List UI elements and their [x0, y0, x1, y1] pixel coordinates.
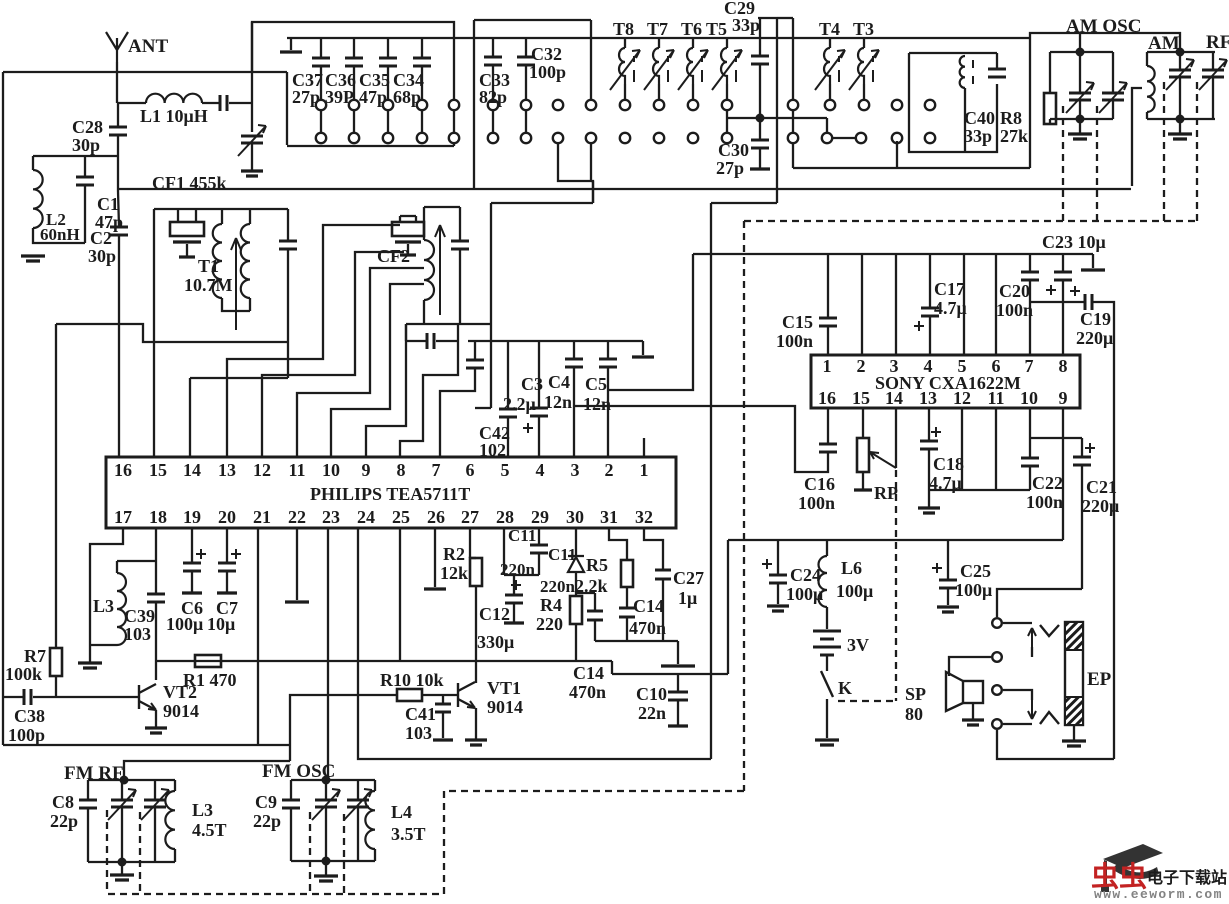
wire C2 down pin16 column: [118, 235, 120, 324]
wire C37 contact link: [320, 111, 322, 132]
junction C29 C30: [756, 114, 765, 123]
svg-text:6: 6: [992, 356, 1001, 376]
svg-text:K: K: [838, 678, 852, 698]
bar C7: [217, 591, 237, 594]
wire mid rail: [612, 673, 728, 675]
svg-text:C41: C41: [405, 704, 436, 724]
wire C36 stub: [353, 38, 355, 58]
wire T3 to contact: [863, 84, 865, 99]
varcap AMOSC 1: [1069, 93, 1091, 100]
bar CF1f tail: [179, 255, 195, 258]
svg-text:17: 17: [114, 507, 132, 527]
svg-text:L3: L3: [192, 800, 213, 820]
wire T4-T3 link: [833, 137, 855, 139]
wire AM gnd stub: [1179, 119, 1181, 133]
wire L6 stub: [826, 540, 828, 556]
wire C41 tail: [442, 712, 444, 738]
wire switch down: [826, 699, 828, 738]
varcap AM 1: [1169, 70, 1191, 77]
wire C35 contact link: [387, 111, 389, 132]
svg-text:14: 14: [183, 460, 201, 480]
wire supply rail H1: [156, 660, 612, 662]
wire pin19 stub: [191, 528, 193, 562]
wire pin21 column: [257, 528, 259, 745]
trimmer T8: [619, 48, 625, 84]
plus C3: [523, 423, 533, 433]
ground bar pin26: [424, 587, 446, 590]
wire ANT down: [116, 62, 118, 103]
capacitor C21: [1073, 457, 1091, 465]
svg-text:23: 23: [322, 507, 340, 527]
wire CF1f tail: [186, 244, 188, 256]
svg-text:20: 20: [218, 507, 236, 527]
inductor detector coil: [424, 240, 434, 300]
varcap AMOSC 2: [1102, 93, 1124, 100]
wire R8 bottom: [1049, 119, 1051, 124]
varcap FMRF 1: [111, 800, 133, 807]
capacitor C15: [819, 318, 837, 326]
wire trimmer to gnd: [251, 143, 253, 170]
wire FMRF gnd stub: [121, 862, 123, 874]
wire L1 to cap: [202, 102, 219, 104]
wire C33 link: [492, 111, 494, 132]
svg-text:VT1: VT1: [487, 678, 521, 698]
wire inner box bottom: [287, 145, 454, 147]
svg-text:C39: C39: [124, 606, 155, 626]
wire x793 riser: [792, 18, 794, 99]
wire C42 stub: [507, 341, 509, 408]
capacitor C4: [565, 359, 583, 367]
wire C18 down: [928, 449, 930, 507]
inductor osc coil: [960, 56, 965, 88]
svg-text:3: 3: [890, 356, 899, 376]
arrow jack upper: [1028, 628, 1036, 647]
ground speaker: [962, 720, 984, 725]
ground AMOSC: [1068, 134, 1092, 139]
wire AMOSC vc1 down: [1079, 100, 1081, 119]
svg-text:24: 24: [357, 507, 375, 527]
wire jack upper down: [1031, 647, 1033, 657]
wire C27 down: [662, 579, 664, 641]
wire supply bus: [728, 539, 1063, 541]
svg-text:C11: C11: [548, 545, 576, 564]
arrow T1 core: [231, 238, 241, 330]
varcap FMRF 2: [144, 800, 166, 807]
svg-text:22: 22: [288, 507, 306, 527]
dashed gang AMOSC 2: [1096, 106, 1098, 221]
wire x593 link: [592, 181, 594, 203]
svg-text:C38: C38: [14, 706, 45, 726]
svg-text:C5: C5: [585, 374, 607, 394]
svg-text:4: 4: [536, 460, 545, 480]
capacitor C19: [1085, 294, 1092, 310]
contact T6 row1: [688, 100, 698, 110]
capacitor coupling: [427, 333, 434, 349]
wire T5 stub: [726, 38, 728, 48]
wire pin3 tee: [574, 405, 577, 407]
wire det right drop: [457, 324, 459, 341]
wire padder node: [727, 117, 827, 119]
transistor VT2 9014: [139, 684, 156, 710]
wire pin31 jog: [609, 528, 627, 560]
resistor R4: [570, 596, 582, 624]
wire main bus CF1: [119, 188, 1131, 190]
svg-text:100n: 100n: [798, 493, 835, 513]
wire pin2 up: [861, 254, 863, 355]
arrow jack lower: [1028, 700, 1036, 719]
wire c13 tail: [594, 620, 596, 641]
wire pin7 cap stub: [474, 341, 476, 360]
junction AMOSC bottom: [1076, 115, 1085, 124]
resistor R7: [50, 648, 62, 676]
wire AMOSC tank top: [1050, 51, 1113, 53]
contact T4 row1: [825, 100, 835, 110]
svg-text:C8: C8: [52, 792, 74, 812]
capacitor C13: [587, 611, 603, 620]
wire x897 stub: [896, 141, 898, 168]
wire CF2 stub L: [399, 216, 401, 222]
contact box right row2: [449, 133, 459, 143]
wire top-left box: [3, 71, 287, 73]
capacitor C18: [920, 441, 938, 449]
wire C33 to contact: [492, 65, 494, 99]
wire C8 stub: [87, 780, 89, 799]
svg-text:13: 13: [919, 388, 937, 408]
wire pin29 stub: [538, 528, 540, 544]
svg-text:100μ: 100μ: [786, 584, 823, 604]
wire L3fm stub top: [174, 780, 176, 791]
capacitor C24: [769, 575, 787, 583]
wire det to x593: [491, 202, 593, 204]
wire pin3 up: [895, 254, 897, 355]
dashed gang FMRF 2: [139, 812, 141, 894]
svg-text:100p: 100p: [8, 725, 45, 745]
box osc coil top: [909, 52, 997, 54]
wire AM coil top stub2: [1146, 52, 1148, 66]
svg-text:330μ: 330μ: [477, 632, 514, 652]
inductor L1: [146, 94, 202, 103]
wire C38 left: [3, 696, 24, 698]
contact under C35 row1: [383, 100, 393, 110]
resistor R2: [470, 558, 482, 586]
wire x793 mid: [792, 111, 794, 132]
wire AMOSC vc2 stub: [1112, 52, 1114, 93]
svg-text:220μ: 220μ: [1082, 496, 1119, 516]
wire C15 column: [827, 254, 829, 317]
wire FMRF top bus: [88, 779, 175, 781]
svg-text:SP: SP: [905, 684, 926, 704]
wire AM coil bottom stub: [1146, 112, 1148, 119]
svg-text:14: 14: [885, 388, 903, 408]
contact g2 row1 a: [553, 100, 563, 110]
svg-text:9014: 9014: [163, 701, 199, 721]
svg-text:www.eeworm.com: www.eeworm.com: [1094, 887, 1223, 899]
wire C28 to node: [117, 135, 119, 191]
wire bottom link bus: [929, 489, 1030, 491]
contact T5 row1: [722, 100, 732, 110]
svg-text:220μ: 220μ: [1076, 328, 1113, 348]
ceramic filter CF1 body: [170, 222, 204, 236]
wire C1 top stub: [84, 156, 86, 176]
wire C9 stub: [290, 780, 292, 799]
svg-text:100μ: 100μ: [166, 614, 203, 634]
svg-text:12n: 12n: [583, 394, 611, 414]
svg-text:EP: EP: [1087, 669, 1112, 690]
wire T1 box right upper: [287, 209, 289, 240]
ground VT1: [465, 740, 487, 745]
ground C25: [937, 607, 959, 612]
capacitor C12: [505, 595, 523, 603]
svg-text:13: 13: [218, 460, 236, 480]
svg-text:10: 10: [1020, 388, 1038, 408]
svg-text:RP: RP: [874, 483, 898, 503]
contact right row2: [892, 133, 902, 143]
wire c13 stub: [594, 593, 596, 610]
wire RP bottom: [862, 472, 864, 489]
capacitor C41: [435, 704, 451, 712]
wire CF1f stub R: [195, 209, 197, 222]
ground stub at bus start: [290, 38, 292, 50]
svg-text:33p: 33p: [732, 15, 760, 35]
wire top box right circles: [453, 110, 455, 132]
wire C3 down pin4: [538, 416, 540, 457]
wire FMOSC gnd stub: [325, 861, 327, 875]
wire C30 stub: [759, 148, 761, 168]
wire pin16 column: [118, 324, 120, 457]
svg-text:29: 29: [531, 507, 549, 527]
wire det bottom: [406, 323, 491, 325]
svg-text:C23 10μ: C23 10μ: [1042, 232, 1106, 252]
op-amp U1 PHILIPS TEA5711T: [106, 457, 676, 528]
plus C17: [914, 321, 924, 331]
wire FMOSC vc2 down: [357, 807, 359, 861]
wire L3if stub: [116, 561, 118, 573]
wire cap to riser: [229, 102, 252, 104]
wire det cap down: [459, 249, 461, 324]
wire VT1 emitter: [475, 708, 477, 739]
arrow detector core: [435, 225, 445, 315]
svg-text:T1: T1: [198, 256, 219, 276]
wire C12 stub: [513, 575, 515, 594]
contact T6 row2: [688, 133, 698, 143]
svg-text:C14: C14: [573, 663, 604, 683]
wire FMRF feed jog: [289, 745, 291, 761]
wire pin3 to C16: [577, 406, 813, 472]
contact T3 row1: [859, 100, 869, 110]
wire pin1 stub: [643, 438, 645, 457]
svg-text:470n: 470n: [629, 618, 666, 638]
contact under C37 row2: [316, 133, 326, 143]
svg-text:5: 5: [958, 356, 967, 376]
svg-text:220n: 220n: [500, 560, 536, 579]
contact jack 3: [992, 685, 1002, 695]
wire pin32 jog: [644, 528, 663, 569]
capacitor C29: [751, 56, 769, 64]
svg-text:32: 32: [635, 507, 653, 527]
svg-text:22p: 22p: [253, 811, 281, 831]
svg-text:R5: R5: [586, 555, 608, 575]
ground switch: [815, 740, 839, 745]
jack contact V: [1040, 625, 1059, 636]
svg-text:7: 7: [432, 460, 441, 480]
wire pin12 staircase: [262, 252, 404, 457]
wire AM vc2 down: [1212, 77, 1214, 119]
wire C21 stub: [1081, 438, 1083, 457]
svg-text:12: 12: [253, 460, 271, 480]
wire pin10 down: [1029, 408, 1031, 457]
svg-text:C20: C20: [999, 281, 1030, 301]
wire batt to switch: [826, 655, 828, 671]
contact under C37 row1: [316, 100, 326, 110]
contact under C34 row1: [417, 100, 427, 110]
svg-text:C32: C32: [531, 44, 562, 64]
svg-text:R4: R4: [540, 595, 562, 615]
svg-text:C28: C28: [72, 117, 103, 137]
inductor L3 IF: [117, 573, 126, 645]
trimmer T6: [687, 48, 693, 84]
svg-text:PHILIPS TEA5711T: PHILIPS TEA5711T: [310, 484, 470, 504]
capacitor C14: [619, 608, 635, 617]
trimmer CF1 tuning: [241, 136, 263, 143]
box osc coil: [909, 53, 997, 152]
wire top stub box: [758, 17, 777, 19]
wire L1 left: [117, 102, 146, 104]
svg-text:9: 9: [1059, 388, 1068, 408]
wire C12 tail: [513, 603, 515, 622]
ground FMOSC: [314, 876, 338, 881]
wire C20 down: [1029, 280, 1031, 355]
svg-text:C22: C22: [1032, 473, 1063, 493]
capacitor C22: [1021, 458, 1039, 466]
wire L3if top: [117, 560, 156, 562]
wire L2 top: [32, 156, 34, 170]
wire speaker gnd stub: [972, 703, 974, 719]
wire pin22 stub: [296, 528, 298, 600]
wire det box left: [423, 207, 425, 240]
wire jack2 link: [949, 657, 991, 676]
wire x793 low: [792, 143, 794, 168]
svg-text:T3: T3: [853, 19, 874, 39]
wire C21 to jack: [997, 589, 1082, 617]
wire VT2 emitter: [155, 710, 157, 727]
svg-text:C24: C24: [790, 565, 821, 585]
ground pin17 branch: [78, 663, 102, 668]
wire R4 cap link: [577, 592, 595, 594]
svg-text:80: 80: [905, 704, 923, 724]
resistor RP: [857, 438, 869, 472]
wire T7 stub: [658, 38, 660, 48]
svg-text:L4: L4: [391, 802, 412, 822]
wire FMRF vc2 stub: [154, 780, 156, 800]
dashed K link: [838, 700, 896, 702]
svg-text:31: 31: [600, 507, 618, 527]
jack contact Lambda: [1040, 712, 1059, 724]
svg-text:18: 18: [149, 507, 167, 527]
capacitor C3: [530, 408, 548, 416]
svg-text:19: 19: [183, 507, 201, 527]
wire R10 feed: [290, 695, 397, 745]
ground C18: [918, 508, 940, 513]
contact under C33 row1: [488, 100, 498, 110]
wire C4 down pin3: [573, 367, 575, 457]
capacitor C8: [79, 800, 97, 808]
wire top box lip: [252, 22, 454, 100]
contact x794 row2: [788, 133, 798, 143]
wire C40 top: [996, 53, 998, 68]
wire pin8 up: [1062, 254, 1064, 272]
wire C7 tail: [226, 571, 228, 592]
wire C15 down: [827, 326, 829, 355]
wire AMOSC vc1 stub: [1079, 52, 1081, 93]
wire pin13 down: [928, 408, 930, 440]
svg-text:11: 11: [987, 388, 1004, 408]
wire L3fm stub bottom: [174, 849, 176, 862]
wire C21 down: [1081, 465, 1083, 589]
svg-text:47p: 47p: [359, 87, 387, 107]
plus C25: [932, 563, 942, 573]
wire SONY top bus feed: [693, 253, 1093, 255]
wire pin30 stub: [575, 528, 577, 556]
varcap FMOSC 2: [347, 800, 369, 807]
wire C33 stub: [492, 38, 494, 57]
svg-text:27k: 27k: [1000, 126, 1028, 146]
svg-text:100n: 100n: [1026, 492, 1063, 512]
ground stub bypass: [642, 341, 644, 355]
svg-text:R2: R2: [443, 544, 465, 564]
svg-text:4.7μ: 4.7μ: [934, 298, 967, 318]
svg-text:12n: 12n: [544, 392, 572, 412]
bar RP: [854, 488, 872, 491]
wire g2 to x593: [591, 181, 593, 203]
wire C32 stub: [525, 38, 527, 57]
capacitor C17: [921, 308, 939, 316]
switch K: [821, 671, 833, 697]
core marks osc coil: [972, 60, 974, 84]
wire C34 to contact: [421, 66, 423, 99]
contact right row1: [892, 100, 902, 110]
contact jack 4: [992, 719, 1002, 729]
junction AM bottom: [1176, 115, 1185, 124]
wire C42 down pin5: [507, 417, 509, 457]
plus C19: [1070, 286, 1080, 296]
wire T1 box top: [154, 208, 288, 210]
svg-text:C40: C40: [964, 108, 995, 128]
wire det cap stub: [459, 207, 461, 240]
wire C36 contact link: [353, 111, 355, 132]
wire VT1 collector: [475, 661, 477, 683]
wire C4 stub: [573, 341, 575, 358]
capacitor C10: [668, 692, 688, 700]
wire AMOSC tank bottom: [1050, 118, 1113, 120]
svg-text:27p: 27p: [292, 87, 320, 107]
capacitor C9: [282, 800, 300, 808]
capacitor C25: [939, 580, 957, 588]
svg-text:C11: C11: [508, 526, 536, 545]
wire L3if bottom: [90, 644, 117, 646]
svg-text:L1 10μH: L1 10μH: [140, 106, 208, 126]
ground EP: [1062, 741, 1086, 746]
wire pin5 up: [963, 254, 965, 355]
wire AM vc1 stub: [1179, 52, 1181, 70]
inductor AM loopstick: [1147, 66, 1155, 112]
contact T4 row2: [822, 133, 832, 143]
dashed gang FMRF 1: [106, 810, 108, 894]
wire R7 bottom: [55, 676, 57, 697]
svg-text:3.5T: 3.5T: [391, 824, 426, 844]
capacitor C37: [312, 58, 330, 66]
wire pin26 stub: [434, 528, 436, 587]
wire R5 down: [626, 587, 628, 607]
